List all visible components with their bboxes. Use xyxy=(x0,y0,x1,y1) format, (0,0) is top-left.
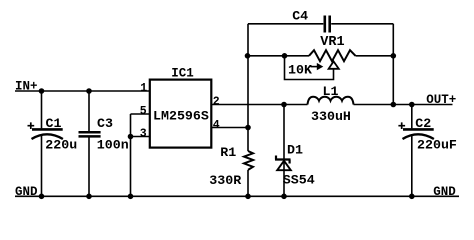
svg-text:D1: D1 xyxy=(287,142,303,157)
svg-text:220u: 220u xyxy=(45,137,77,152)
svg-text:220uF: 220uF xyxy=(417,137,457,152)
svg-text:LM2596S: LM2596S xyxy=(153,108,209,123)
svg-text:IC1: IC1 xyxy=(171,66,194,80)
svg-text:4: 4 xyxy=(213,119,220,132)
svg-text:330uH: 330uH xyxy=(311,109,351,124)
svg-text:C3: C3 xyxy=(97,116,113,131)
svg-text:2: 2 xyxy=(213,96,220,109)
svg-text:1: 1 xyxy=(140,82,147,95)
svg-text:330R: 330R xyxy=(209,173,241,188)
svg-text:IN+: IN+ xyxy=(15,80,38,94)
svg-text:3: 3 xyxy=(140,128,147,141)
svg-text:100n: 100n xyxy=(97,137,129,152)
svg-text:C1: C1 xyxy=(46,116,62,131)
svg-text:C4: C4 xyxy=(292,8,308,23)
svg-text:R1: R1 xyxy=(220,145,236,160)
svg-text:L1: L1 xyxy=(323,84,339,99)
svg-text:SS54: SS54 xyxy=(283,172,315,187)
svg-text:5: 5 xyxy=(140,105,147,118)
svg-text:GND: GND xyxy=(433,185,456,199)
svg-text:VR1: VR1 xyxy=(320,35,344,50)
svg-text:10K: 10K xyxy=(288,63,312,78)
svg-text:C2: C2 xyxy=(415,116,431,131)
svg-text:OUT+: OUT+ xyxy=(426,93,456,107)
svg-text:GND: GND xyxy=(15,185,38,199)
